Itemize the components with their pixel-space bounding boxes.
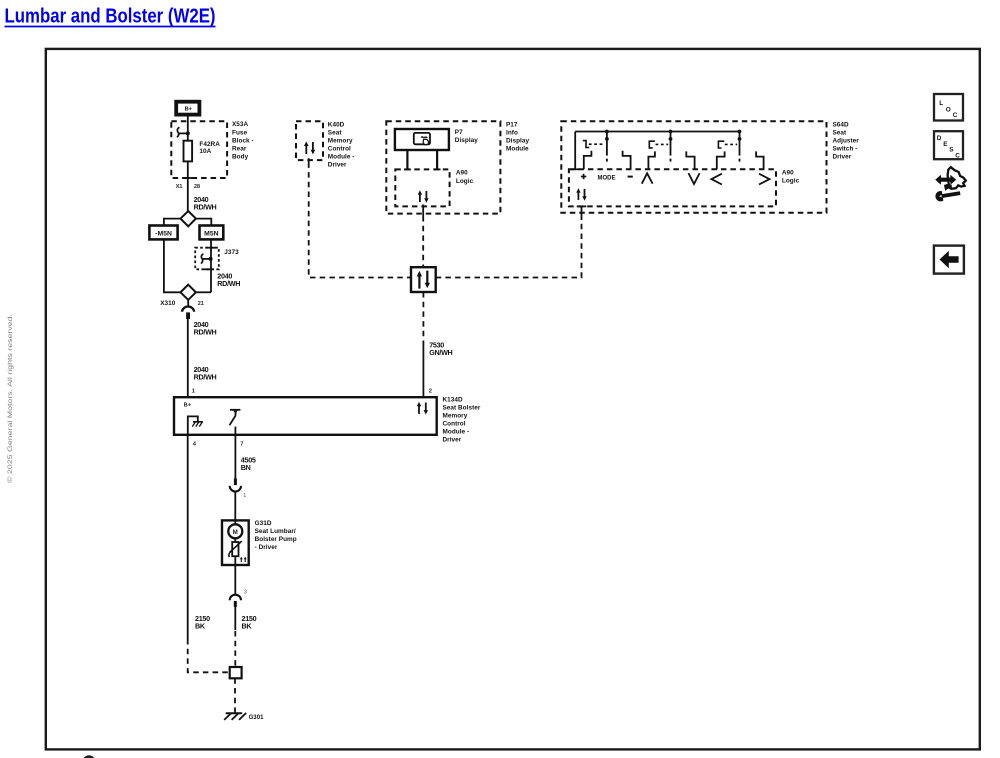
- wire K134D pin4 ground run: [187, 435, 189, 639]
- switch contact down: [686, 151, 694, 169]
- label chevron left: [711, 174, 722, 185]
- wire label 2040 RD/WH: [194, 320, 217, 337]
- svg-text:4: 4: [193, 442, 197, 448]
- module K40D dashed box: [296, 121, 323, 160]
- splice box: [230, 667, 242, 678]
- svg-text:L: L: [939, 100, 943, 107]
- wire B+ to fuse: [187, 117, 189, 141]
- svg-text:Control: Control: [443, 421, 466, 428]
- page nav bullet: [83, 755, 96, 758]
- svg-text:Info: Info: [506, 129, 518, 136]
- fuse block X53A dashed box: [171, 121, 227, 178]
- svg-text:Memory: Memory: [328, 137, 353, 144]
- S64D exit tick: [577, 205, 587, 207]
- A90 arrows (P17): [418, 190, 429, 203]
- module P17 label: [506, 121, 529, 152]
- svg-text:Seat: Seat: [833, 129, 848, 136]
- connector J373 dashed box: [195, 248, 239, 270]
- inline connector X310: [182, 300, 194, 319]
- svg-text:F42RA: F42RA: [199, 141, 220, 148]
- svg-text:Memory: Memory: [443, 413, 468, 420]
- svg-text:Module -: Module -: [328, 154, 355, 161]
- wire M5N through J373: [210, 240, 212, 293]
- data bus right segment: [436, 220, 582, 278]
- svg-text:RD/WH: RD/WH: [217, 279, 240, 288]
- svg-text:P7: P7: [455, 129, 463, 136]
- svg-text:Block -: Block -: [232, 137, 254, 144]
- svg-text:K134D: K134D: [443, 396, 463, 403]
- svg-text:Display: Display: [455, 137, 478, 144]
- svg-text:S: S: [949, 147, 954, 154]
- svg-text:Driver: Driver: [443, 437, 462, 444]
- svg-text:Driver: Driver: [833, 154, 852, 161]
- wire P17 to data box: [422, 216, 424, 267]
- label plus: [581, 174, 586, 179]
- svg-text:X310: X310: [160, 300, 176, 307]
- svg-text:BN: BN: [241, 463, 251, 472]
- logic A90 dashed box (P17): [395, 169, 473, 206]
- K134D serial data arrows: [417, 402, 428, 415]
- splice diamond X310: [181, 285, 196, 300]
- fuse F42RA 10A: [184, 141, 221, 162]
- LOC button: [934, 94, 963, 121]
- svg-text:RD/WH: RD/WH: [194, 328, 217, 337]
- module K134D label: [443, 396, 481, 443]
- svg-text:X1: X1: [176, 184, 184, 190]
- svg-text:Adjuster: Adjuster: [833, 137, 860, 144]
- svg-text:2: 2: [429, 389, 432, 395]
- svg-text:RD/WH: RD/WH: [194, 373, 217, 382]
- wire connector down, 2150 BK: [234, 607, 236, 630]
- wire splice to ground: [234, 678, 236, 713]
- display P7: [395, 129, 478, 150]
- wire to -M5N: [164, 219, 181, 226]
- J373 terminal symbol: [201, 254, 213, 264]
- svg-text:- Driver: - Driver: [255, 544, 278, 551]
- svg-text:RD/WH: RD/WH: [194, 203, 217, 212]
- svg-text:Seat Bolster: Seat Bolster: [443, 404, 481, 411]
- wire data box to K134D pin 2: [422, 292, 424, 341]
- svg-text:Switch -: Switch -: [833, 145, 858, 152]
- module K134D box: [174, 397, 437, 435]
- switch contact plus: [584, 151, 592, 170]
- pump arrows: [240, 557, 247, 562]
- wire M5N branch into splice: [196, 291, 211, 293]
- A90 arrows (S64D): [576, 188, 587, 201]
- K134D internal ground: [188, 416, 203, 434]
- pump valve symbol: [229, 538, 242, 557]
- svg-text:K40D: K40D: [328, 121, 345, 128]
- svg-text:B+: B+: [185, 107, 193, 113]
- svg-text:7: 7: [240, 442, 243, 448]
- pump G31D box: [222, 520, 249, 565]
- fuse block label X53A: [232, 121, 254, 160]
- switch contact up: [648, 151, 655, 169]
- svg-text:G31D: G31D: [255, 520, 272, 527]
- svg-text:BK: BK: [195, 621, 206, 630]
- K40D serial data arrows: [304, 141, 315, 154]
- wire label 2040 RD/WH: [194, 195, 217, 212]
- fuse block terminal symbol: [177, 127, 190, 137]
- svg-text:28: 28: [194, 184, 201, 190]
- svg-text:A90: A90: [456, 170, 468, 177]
- svg-text:C: C: [955, 152, 960, 159]
- svg-text:MODE: MODE: [598, 174, 617, 181]
- svg-text:O: O: [946, 106, 951, 113]
- wire connector to K134D pin 1: [187, 319, 189, 397]
- svg-text:Fuse: Fuse: [232, 129, 248, 136]
- svg-text:Seat: Seat: [328, 129, 343, 136]
- wire to M5N: [196, 219, 211, 226]
- option box -M5N: [149, 226, 177, 240]
- switch contact right: [756, 151, 764, 169]
- svg-text:1: 1: [192, 389, 196, 395]
- wire pump down: [234, 556, 236, 595]
- wire K134D pin7 down: [234, 435, 236, 479]
- svg-text:Display: Display: [506, 137, 529, 144]
- svg-text:BK: BK: [242, 621, 253, 630]
- wire label 2150 BK left: [195, 614, 210, 631]
- inline connector below pump: [230, 595, 241, 607]
- label chevron up: [642, 173, 653, 183]
- svg-text:S64D: S64D: [833, 121, 850, 128]
- svg-text:Bolster Pump: Bolster Pump: [255, 536, 297, 543]
- svg-text:E: E: [943, 141, 948, 148]
- svg-text:Control: Control: [328, 145, 351, 152]
- svg-text:A90: A90: [782, 170, 794, 177]
- wire -M5N down to splice: [164, 239, 181, 292]
- svg-text:Module: Module: [506, 145, 529, 152]
- switch group horizontal detent: [718, 141, 737, 148]
- svg-text:-M5N: -M5N: [155, 230, 172, 237]
- DESC button: [934, 131, 963, 159]
- svg-text:C: C: [953, 112, 958, 119]
- label chevron right: [759, 174, 770, 185]
- svg-text:Module -: Module -: [443, 429, 470, 436]
- K134D internal switch: [230, 410, 241, 435]
- display legs: [404, 150, 441, 169]
- switch S64D dashed box: [561, 121, 826, 213]
- module P17 dashed box: [386, 121, 500, 213]
- switch group MODE pole: [605, 130, 609, 164]
- serial data box arrows: [417, 271, 430, 289]
- svg-text:J373: J373: [224, 249, 239, 256]
- battery feed B+: [176, 102, 199, 115]
- fuse block boundary tick: [183, 177, 193, 179]
- wire label 2150 BK right: [242, 614, 257, 631]
- svg-text:B+: B+: [184, 402, 191, 408]
- svg-text:10A: 10A: [199, 148, 211, 155]
- switch group MODE detent: [583, 141, 605, 148]
- option box M5N: [200, 226, 224, 240]
- svg-text:P17: P17: [506, 121, 518, 128]
- wire connector to pump: [234, 491, 236, 520]
- svg-text:Body: Body: [232, 153, 249, 160]
- switch S64D label: [833, 121, 860, 160]
- wire label 7530 GN/WH: [429, 341, 452, 358]
- wire label 4505 BN: [241, 455, 256, 472]
- S64D feed line: [571, 132, 580, 170]
- svg-text:Logic: Logic: [782, 178, 800, 185]
- wire fuse to splice diamond: [187, 161, 189, 211]
- ground G301: [224, 713, 264, 721]
- svg-text:Rear: Rear: [232, 145, 247, 152]
- svg-text:D: D: [937, 135, 942, 142]
- K40D boundary tick: [308, 158, 310, 162]
- svg-text:21: 21: [198, 301, 205, 307]
- wire K40D to data bus: [309, 162, 411, 277]
- logic A90 dashed box (S64D): [569, 169, 800, 206]
- splice diamond: [181, 211, 196, 226]
- S64D drop solid segment: [581, 206, 583, 220]
- svg-text:G301: G301: [249, 715, 264, 721]
- inline connector on 4505: [230, 478, 247, 499]
- pump motor M: [228, 520, 242, 538]
- S64D bus bar: [575, 131, 739, 133]
- module K40D label: [328, 121, 355, 168]
- svg-text:Lumbar and Bolster (W2E): Lumbar and Bolster (W2E): [5, 6, 216, 28]
- pump G31D label: [255, 520, 297, 551]
- svg-text:GN/WH: GN/WH: [429, 348, 452, 357]
- wire label 2040 RD/WH right branch: [217, 272, 240, 289]
- page title Lumbar and Bolster (W2E): [5, 6, 216, 28]
- switch group horizontal pole: [738, 130, 742, 164]
- svg-text:Seat Lumbar/: Seat Lumbar/: [255, 528, 296, 535]
- switch contact minus: [623, 151, 631, 170]
- serial data box: [411, 267, 436, 292]
- label chevron down: [689, 173, 700, 184]
- svg-text:M: M: [233, 530, 238, 536]
- svg-text:© 2025 General Motors. All rig: © 2025 General Motors. All rights reserv…: [7, 314, 14, 483]
- switch group vertical pole: [669, 130, 673, 164]
- P17 boundary tick: [422, 205, 424, 217]
- svg-text:Driver: Driver: [328, 162, 347, 169]
- svg-text:X53A: X53A: [232, 121, 249, 128]
- switch group vertical detent: [649, 141, 668, 148]
- svg-text:Logic: Logic: [456, 178, 474, 185]
- wire label 2040 RD/WH: [194, 365, 217, 382]
- label minus: [628, 176, 633, 178]
- schematic navigation icon: [935, 167, 966, 202]
- svg-text:M5N: M5N: [204, 230, 219, 237]
- svg-text:3: 3: [244, 589, 247, 595]
- back button: [934, 246, 964, 274]
- svg-text:1: 1: [243, 493, 246, 499]
- switch contact left: [717, 151, 725, 169]
